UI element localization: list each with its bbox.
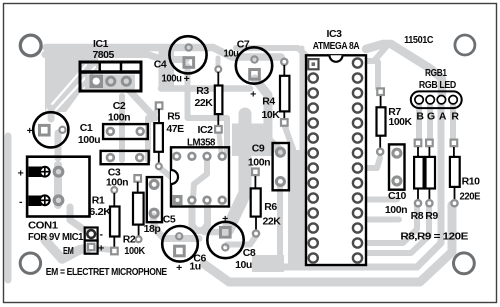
mounting hole top-right <box>455 35 475 55</box>
svg-text:R2: R2 <box>123 234 136 246</box>
svg-text:RGB1: RGB1 <box>425 67 447 79</box>
pad IC1 pin3 <box>122 77 130 85</box>
svg-text:G: G <box>427 111 435 123</box>
capacitor C6 electrolytic <box>162 226 198 262</box>
svg-text:ATMEGA 8A: ATMEGA 8A <box>313 40 360 52</box>
trace blob left of IC1 <box>45 51 98 112</box>
capacitor C5 <box>147 177 162 222</box>
svg-text:R8: R8 <box>411 210 424 222</box>
svg-text:R5: R5 <box>167 111 180 123</box>
wire C9 to bottom blob <box>277 186 283 258</box>
LED RGB1 <box>411 91 462 108</box>
svg-text:R6: R6 <box>264 201 277 213</box>
svg-text:C2: C2 <box>113 100 126 112</box>
wire vertical C2 right down <box>145 118 151 160</box>
svg-text:RGB LED: RGB LED <box>419 79 457 91</box>
svg-text:100K: 100K <box>124 245 145 257</box>
wire blob near C8 right <box>252 255 284 272</box>
wire band left of C6 <box>153 216 199 239</box>
wire EM area V trace <box>45 240 88 259</box>
pad IC2 pin3 <box>202 196 211 205</box>
svg-text:22K: 22K <box>263 216 282 228</box>
pad IC3 pin1 square <box>308 59 318 69</box>
resistor R9 <box>425 139 435 207</box>
wire IC3 left pad stubs <box>298 150 310 156</box>
pad IC1 pin2 <box>107 77 115 85</box>
resistor R1 <box>110 187 120 255</box>
pads IC3 right column pins 15-28 <box>353 58 362 262</box>
svg-text:+: + <box>250 89 256 101</box>
svg-text:R: R <box>451 111 459 123</box>
wire RGB LED columns <box>416 103 422 140</box>
svg-text:100u: 100u <box>78 134 100 146</box>
wire CON1 to MIC1 <box>70 207 86 231</box>
svg-text:C8: C8 <box>243 247 256 259</box>
svg-text:R10: R10 <box>462 176 481 188</box>
wire R4 pad to band <box>284 124 293 149</box>
capacitor C4 electrolytic <box>169 36 206 73</box>
svg-text:47E: 47E <box>166 123 184 135</box>
voltage regulator IC1 7805 <box>80 62 141 91</box>
svg-text:100n: 100n <box>108 112 130 124</box>
resistor R4 <box>280 59 290 127</box>
pad IC2 pin5 <box>172 152 181 161</box>
svg-text:CON1: CON1 <box>28 220 58 232</box>
svg-text:C10: C10 <box>388 190 407 202</box>
wire diagonals top right <box>366 44 442 97</box>
svg-text:R3: R3 <box>196 85 209 97</box>
wire C4 pad elbow to IC2 <box>188 66 228 152</box>
wire IC1 pads band <box>85 75 135 90</box>
resistor R2 <box>133 174 144 242</box>
wire IC1 to R5 diagonal <box>127 88 155 118</box>
capacitor C1 electrolytic <box>33 112 68 147</box>
svg-text:R8,R9 = 120E: R8,R9 = 120E <box>400 230 468 242</box>
svg-text:7805: 7805 <box>92 49 114 61</box>
svg-text:C5: C5 <box>163 214 176 226</box>
wire C7 pad down to C9 <box>255 79 279 150</box>
wire top band B <box>45 55 186 60</box>
resistor R5 <box>154 101 163 169</box>
resistor R8 <box>414 139 424 207</box>
wire band behind C9 labels <box>228 114 245 229</box>
pad IC2 pin1 square <box>173 195 183 205</box>
mounting hole bottom-right <box>454 253 475 274</box>
pad IC2 pin7 <box>202 152 211 161</box>
wire S-curve inside IC2 <box>193 160 207 198</box>
wire IC3 pad stub row11 <box>362 217 399 223</box>
svg-text:+: + <box>176 262 182 274</box>
wire IC3 pad to R8 <box>360 205 417 243</box>
svg-text:R9: R9 <box>425 210 438 222</box>
microphone MIC1 header <box>85 228 98 254</box>
svg-text:R1: R1 <box>92 195 105 207</box>
wire inside CON1 <box>54 165 62 205</box>
pad IC1 pin1 square <box>90 75 104 89</box>
wire band near IC1 top <box>159 45 175 90</box>
wire U from IC2 pins 2,3 <box>192 204 208 231</box>
svg-text:IC3: IC3 <box>327 28 343 40</box>
svg-text:18p: 18p <box>144 223 161 235</box>
capacitor C3 <box>101 151 149 164</box>
wire right of IC3 to R7 <box>375 62 381 88</box>
wire band behind R3 <box>161 85 250 92</box>
pad IC2 pin4 <box>218 196 227 205</box>
svg-text:EM: EM <box>63 245 74 257</box>
svg-text:C7: C7 <box>237 39 250 51</box>
capacitor C10 <box>389 144 405 189</box>
capacitor C2 <box>103 124 148 139</box>
svg-text:C4: C4 <box>154 59 167 71</box>
wire C1 to CON1 <box>55 133 62 158</box>
svg-text:A: A <box>439 111 447 123</box>
svg-text:6.2K: 6.2K <box>89 206 112 218</box>
svg-text:1u: 1u <box>189 261 200 273</box>
svg-text:100u: 100u <box>162 73 182 85</box>
svg-text:100n: 100n <box>106 177 128 189</box>
wire IC3 pad stub row10 <box>362 197 397 203</box>
wire bottom band to R10 <box>204 205 452 282</box>
mounting hole top-left <box>20 35 41 56</box>
svg-text:+: + <box>98 243 104 255</box>
svg-text:10u: 10u <box>224 48 239 60</box>
op-amp IC2 LM358 <box>171 147 229 206</box>
connector CON1 <box>27 157 89 217</box>
resistor R3 <box>214 66 223 133</box>
wire horizontal under IC3 <box>262 100 441 267</box>
wire R3 pad to IC2 <box>219 134 221 152</box>
wire top band A <box>46 48 281 58</box>
wire band to IC3 pin1 <box>236 48 312 61</box>
svg-text:100n: 100n <box>385 204 407 216</box>
svg-text:+: + <box>222 213 228 225</box>
mounting hole bottom-left <box>20 253 40 273</box>
svg-text:B: B <box>416 111 424 123</box>
svg-text:+: + <box>184 73 190 85</box>
svg-text:+: + <box>27 125 33 137</box>
svg-text:EM = ELECTRET MICROPHONE: EM = ELECTRET MICROPHONE <box>46 266 167 278</box>
wire IC3 pad to R7 bottom <box>362 158 380 168</box>
wire stub to R4 pad <box>281 57 284 61</box>
svg-text:FOR 9V MIC1: FOR 9V MIC1 <box>28 231 84 243</box>
wire R3 stub <box>216 58 221 66</box>
svg-text:220E: 220E <box>460 190 481 202</box>
wire C8 to R6 pad <box>227 236 256 245</box>
wire EM plus to R1 pad <box>92 248 113 250</box>
pad IC2 pin8 <box>218 152 227 161</box>
wire R5 pad into IC2 notch <box>159 167 171 177</box>
resistor R6 <box>251 167 261 236</box>
resistor R10 <box>450 139 460 207</box>
wire left border band <box>5 136 12 280</box>
capacitor C7 electrolytic <box>236 47 272 83</box>
wire vertical left of IC3 <box>300 48 305 150</box>
svg-text:10u: 10u <box>235 259 252 271</box>
svg-text:100K: 100K <box>389 116 413 128</box>
pad IC2 pin6 <box>187 152 196 161</box>
pad IC2 pin2 <box>187 196 196 205</box>
svg-text:C1: C1 <box>80 122 93 134</box>
svg-text:C9: C9 <box>252 143 265 155</box>
wire band C6 C8 <box>204 229 227 236</box>
resistor R7 <box>376 87 385 154</box>
pads IC3 left column pins 2-14 <box>309 73 318 262</box>
svg-text:100n: 100n <box>248 157 270 169</box>
capacitor C8 electrolytic <box>207 222 243 258</box>
wire vertical through C2 <box>119 96 125 160</box>
svg-text:10K: 10K <box>262 109 281 121</box>
wire blob to C1 <box>48 108 55 119</box>
svg-text:+: + <box>18 168 24 180</box>
wire IC3 pad to R9 <box>360 205 429 253</box>
svg-text:IC2: IC2 <box>198 124 214 136</box>
microcontroller IC3 ATMEGA 8A <box>306 55 366 265</box>
svg-text:22K: 22K <box>195 97 214 109</box>
svg-text:LM358: LM358 <box>187 136 216 148</box>
capacitor C9 <box>273 143 289 190</box>
svg-text:R4: R4 <box>262 96 275 108</box>
svg-text:11501C: 11501C <box>404 34 434 46</box>
